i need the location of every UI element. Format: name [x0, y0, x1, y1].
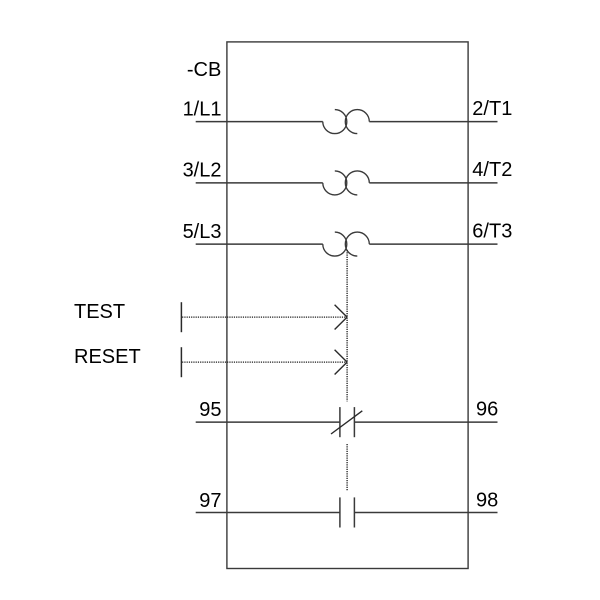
svg-text:97: 97 [199, 490, 221, 512]
svg-text:2/T1: 2/T1 [472, 98, 512, 120]
svg-text:6/T3: 6/T3 [472, 221, 512, 243]
svg-text:95: 95 [199, 399, 221, 421]
svg-text:TEST: TEST [74, 301, 125, 323]
svg-text:4/T2: 4/T2 [472, 159, 512, 181]
svg-text:5/L3: 5/L3 [183, 221, 222, 243]
svg-text:-CB: -CB [187, 59, 221, 81]
svg-text:96: 96 [476, 398, 498, 420]
svg-text:3/L2: 3/L2 [183, 160, 222, 182]
svg-text:RESET: RESET [74, 346, 141, 368]
svg-text:98: 98 [476, 490, 498, 512]
svg-text:1/L1: 1/L1 [183, 98, 222, 120]
